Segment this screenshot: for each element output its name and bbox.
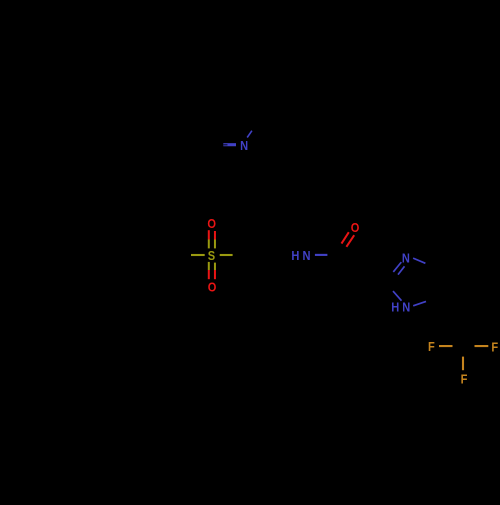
svg-text:H: H [391,299,399,314]
imidazole N1-C2 bond (blue half) [393,291,402,301]
S=O bottom double bond, olive halves [208,262,210,270]
svg-text:N: N [240,138,248,153]
imidazole N1-C5 bond (blue half) [413,301,426,305]
svg-text:O: O [351,220,360,235]
imine C=N double bond (blue half), two nearly-merged lines [223,143,236,146]
C=O double bond (red halves), line 1 [342,232,349,243]
CF3 F bottom label [461,371,468,386]
imidazole N1-H label (H) [391,299,399,314]
imidazole N3=C2 double bond (blue halves), inner line [398,266,405,274]
C-F bond right (orange half) [475,345,489,347]
sulfone S label [208,248,215,263]
carbonyl O label [351,220,360,235]
svg-text:O: O [208,280,217,295]
S-CH3 bond (olive half, left) [191,254,205,256]
sulfonyl O top label [207,216,216,231]
imidazole N3-C4 bond (blue half) [413,258,425,263]
amide N-C(=O) bond (blue half) [315,254,328,256]
imidazole N3 label [402,251,410,266]
sulfonyl O bottom label [208,280,217,295]
svg-text:F: F [428,339,435,354]
CF3 F right label [491,340,498,355]
svg-text:S: S [208,248,215,263]
C-F bond bottom (orange half) [462,357,464,371]
svg-text:F: F [491,340,498,355]
C-F bond left (orange half) [439,345,453,347]
CF3 F left label [428,339,435,354]
S=O top double bond, olive halves [208,240,210,249]
svg-text:N: N [402,299,410,314]
imine N (N-methyl imine nitrogen label) [240,138,248,153]
svg-text:O: O [207,216,216,231]
svg-text:N: N [402,251,410,266]
N-methyl bond (blue half) [247,131,252,138]
amide N-H label (H) [291,248,299,263]
svg-text:N: N [302,248,310,263]
svg-text:F: F [461,371,468,386]
S-CH2 bond (olive half, right) [220,254,233,256]
S=O bottom double bond, red halves [208,270,210,279]
imidazole N3=C2 double bond (blue halves), outer line [393,262,401,272]
C=O double bond (red halves), line 2 [346,235,354,247]
S=O top double bond, red halves [208,230,210,239]
imine C=N double bond gap notch [223,144,227,146]
svg-text:H: H [291,248,299,263]
